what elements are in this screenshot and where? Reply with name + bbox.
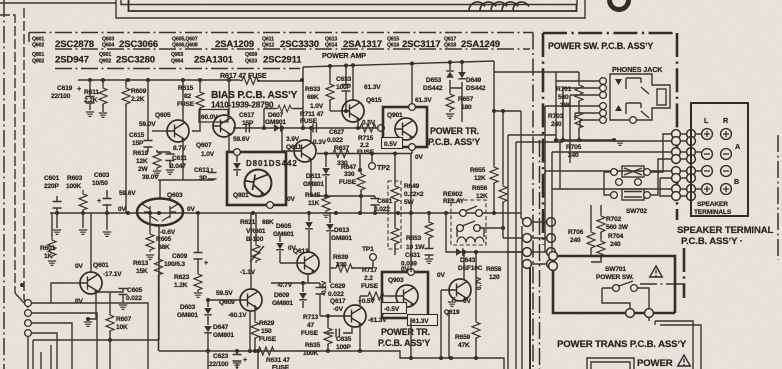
svg-text:SPEAKER: SPEAKER bbox=[697, 201, 728, 208]
svg-text:0V: 0V bbox=[118, 206, 127, 213]
svg-text:R711 47: R711 47 bbox=[300, 111, 324, 118]
svg-text:Q603: Q603 bbox=[167, 192, 183, 199]
svg-text:240: 240 bbox=[570, 237, 581, 244]
svg-text:100/6.3: 100/6.3 bbox=[164, 261, 185, 268]
border power sw box right bbox=[676, 33, 679, 220]
svg-text:15P: 15P bbox=[132, 140, 144, 147]
svg-text:C601: C601 bbox=[44, 175, 60, 182]
svg-text:D647: D647 bbox=[213, 324, 229, 331]
wire y111 to border col bbox=[520, 111, 522, 213]
svg-text:330: 330 bbox=[336, 262, 347, 269]
svg-text:-60.1V: -60.1V bbox=[228, 312, 247, 319]
svg-text:R623: R623 bbox=[174, 274, 190, 281]
svg-text:60.0V: 60.0V bbox=[201, 114, 218, 121]
svg-text:R705: R705 bbox=[566, 144, 582, 151]
transistor pair Q603 oval bbox=[137, 199, 183, 226]
wire upper frame outer bbox=[116, 0, 585, 18]
svg-text:2SC2911: 2SC2911 bbox=[263, 55, 302, 66]
wire supply rail 61.3V bbox=[303, 61, 494, 67]
svg-text:PHONES JACK: PHONES JACK bbox=[612, 65, 663, 74]
wire bus end rise bbox=[520, 213, 522, 218]
svg-text:D607: D607 bbox=[268, 112, 284, 119]
coil L?? loops bbox=[469, 2, 529, 11]
transistor Q619 bbox=[449, 279, 471, 301]
border horizontal power amp left bbox=[55, 68, 300, 70]
svg-text:240: 240 bbox=[551, 121, 562, 128]
resistor R631 47 FUSE on bus bbox=[256, 347, 276, 355]
svg-text:2.2K: 2.2K bbox=[84, 97, 98, 104]
transistor Q601 bbox=[80, 272, 102, 294]
border vertical between power amp and power sw bbox=[532, 33, 534, 369]
svg-text:D801DS442: D801DS442 bbox=[246, 159, 298, 168]
svg-text:1.0V: 1.0V bbox=[310, 103, 324, 110]
svg-text:R635: R635 bbox=[305, 342, 321, 349]
capacitor C623 electrolytic bbox=[236, 351, 238, 354]
svg-text:D613: D613 bbox=[334, 227, 350, 234]
svg-text:8.7V: 8.7V bbox=[173, 145, 187, 152]
capacitor C603 electrolytic bbox=[106, 190, 108, 213]
svg-text:Q605: Q605 bbox=[155, 112, 171, 119]
svg-text:R607: R607 bbox=[116, 316, 132, 323]
capacitor C633 bbox=[345, 66, 347, 112]
svg-text:1K: 1K bbox=[44, 253, 53, 260]
capacitor C629 bbox=[319, 283, 321, 316]
resistor R713 47 FUSE bbox=[327, 316, 329, 326]
svg-text:POWER TR.: POWER TR. bbox=[430, 126, 479, 136]
svg-text:POWER TRANS P.C.B. ASSʼY: POWER TRANS P.C.B. ASSʼY bbox=[557, 339, 687, 350]
svg-text:RE602: RE602 bbox=[443, 191, 463, 198]
svg-text:C619: C619 bbox=[57, 85, 73, 92]
svg-text:11K: 11K bbox=[308, 200, 320, 207]
svg-text:-17.1V: -17.1V bbox=[103, 271, 122, 278]
svg-text:FUSE: FUSE bbox=[177, 101, 195, 108]
border left vertical bbox=[3, 0, 5, 369]
svg-text:R601: R601 bbox=[40, 245, 56, 252]
svg-text:0V: 0V bbox=[187, 206, 196, 213]
svg-text:10/50: 10/50 bbox=[92, 180, 108, 187]
svg-text:R649: R649 bbox=[404, 183, 420, 190]
svg-text:C609: C609 bbox=[172, 253, 188, 260]
svg-text:D605: D605 bbox=[276, 223, 292, 230]
svg-text:C681: C681 bbox=[377, 198, 393, 205]
svg-text:SW701: SW701 bbox=[605, 266, 626, 273]
svg-text:R637: R637 bbox=[334, 145, 350, 152]
terminal screws row3 minus bbox=[702, 166, 713, 177]
resistor R615 82 FUSE bbox=[192, 80, 200, 131]
svg-text:+: + bbox=[204, 258, 208, 267]
svg-text:TERMINALS: TERMINALS bbox=[694, 209, 732, 216]
svg-text:DSF10C: DSF10C bbox=[458, 265, 483, 272]
capacitor C617 bbox=[246, 124, 249, 133]
svg-text:R617 47 FUSE: R617 47 FUSE bbox=[220, 71, 267, 80]
svg-text:330: 330 bbox=[344, 171, 355, 178]
capacitor C631 bbox=[428, 238, 430, 258]
svg-text:D603: D603 bbox=[180, 304, 196, 311]
resistor R619 12K 2W bbox=[157, 150, 170, 152]
svg-text:Q611: Q611 bbox=[286, 144, 302, 151]
svg-text:Q616: Q616 bbox=[387, 43, 399, 49]
node Q901 base circle bbox=[378, 125, 385, 132]
capacitor C615 bbox=[147, 80, 149, 152]
svg-text:A: A bbox=[735, 142, 740, 151]
connector ladder right column bbox=[547, 218, 556, 227]
wire Q619 base bbox=[441, 290, 449, 303]
svg-text:150: 150 bbox=[261, 328, 272, 335]
capacitor C605 bbox=[96, 288, 123, 292]
wire upper frame thick with coil baseline bbox=[129, 0, 577, 11]
svg-text:5W: 5W bbox=[404, 199, 415, 206]
svg-text:+: + bbox=[243, 355, 247, 364]
capacitor C619 bbox=[89, 80, 91, 110]
svg-text:2SC2878: 2SC2878 bbox=[55, 39, 95, 50]
wire speaker rows bbox=[545, 141, 672, 189]
svg-text:Q614: Q614 bbox=[325, 43, 337, 49]
svg-text:R615: R615 bbox=[178, 85, 194, 92]
junction dots bus bbox=[55, 211, 59, 215]
border power sw box left bbox=[542, 33, 545, 245]
svg-text:Q615: Q615 bbox=[366, 97, 382, 104]
svg-text:R621: R621 bbox=[240, 219, 256, 226]
svg-text:59.6V: 59.6V bbox=[119, 190, 136, 197]
svg-text:GM801: GM801 bbox=[177, 312, 198, 319]
relay contact 1 bbox=[460, 210, 467, 217]
svg-text:0.3V: 0.3V bbox=[313, 139, 327, 146]
border top-left corner stub bbox=[28, 33, 30, 43]
svg-text:180: 180 bbox=[461, 104, 472, 111]
phones jack outline bbox=[610, 74, 670, 120]
capacitor C635 bbox=[327, 326, 352, 333]
wire Q903 emitter to bus bbox=[410, 318, 412, 358]
resistor R704 240 bbox=[600, 232, 602, 239]
svg-text:R647: R647 bbox=[341, 164, 357, 171]
svg-text:2SC3117: 2SC3117 bbox=[402, 39, 440, 50]
speaker terminal box bbox=[691, 103, 748, 216]
connector ladder left column bbox=[523, 218, 532, 227]
wire crossing stubs bbox=[508, 135, 563, 142]
wire Q605 base stub bbox=[152, 130, 167, 132]
svg-text:POWER TR.: POWER TR. bbox=[381, 327, 430, 337]
svg-text:Q609: Q609 bbox=[245, 52, 257, 58]
diode in Q801 box bbox=[233, 163, 241, 170]
svg-text:2SC3330: 2SC3330 bbox=[280, 39, 319, 50]
svg-text:68K: 68K bbox=[262, 219, 274, 226]
svg-text:15K: 15K bbox=[136, 268, 148, 275]
svg-text:22/100: 22/100 bbox=[209, 361, 229, 368]
svg-text:R713: R713 bbox=[303, 314, 319, 321]
resistor R703 240 bbox=[578, 101, 580, 110]
label -0.5V boxed bbox=[382, 303, 407, 314]
svg-text:POWER SW.: POWER SW. bbox=[596, 274, 634, 281]
svg-text:240: 240 bbox=[568, 152, 579, 159]
terminal screws row2 minus bbox=[702, 149, 713, 160]
svg-text:47: 47 bbox=[307, 322, 315, 329]
wire Q609 base bbox=[208, 299, 240, 301]
svg-text:B: B bbox=[734, 177, 739, 186]
wire Q619 collector bbox=[463, 252, 465, 280]
wire Q601 base bbox=[64, 282, 80, 284]
svg-text:FUSE: FUSE bbox=[339, 179, 357, 186]
capacitor C611 bbox=[169, 152, 171, 168]
svg-text:12K: 12K bbox=[476, 193, 488, 200]
svg-text:P.C.B. ASSʼY: P.C.B. ASSʼY bbox=[378, 338, 430, 348]
svg-text:47K: 47K bbox=[458, 342, 470, 349]
resistor block R649 dashed box bbox=[388, 181, 401, 249]
wire bottom right drops bbox=[655, 321, 701, 369]
wire Q615 emitter to base line bbox=[357, 121, 359, 128]
wire Q611 base bbox=[282, 128, 294, 151]
svg-text:POWER AMP: POWER AMP bbox=[322, 51, 366, 60]
svg-text:Q801: Q801 bbox=[32, 52, 44, 58]
svg-text:0.047: 0.047 bbox=[170, 163, 186, 170]
switch SW702 row1 bbox=[611, 169, 618, 176]
svg-text:Q606,Q608: Q606,Q608 bbox=[172, 43, 198, 49]
svg-text:SW702: SW702 bbox=[626, 208, 647, 215]
svg-text:R609: R609 bbox=[131, 88, 147, 95]
wire Q617 base bbox=[320, 315, 344, 317]
terminal screws row4 plus bbox=[702, 184, 713, 195]
wire Q605 collector bbox=[182, 80, 184, 121]
node Q801 circles bbox=[234, 149, 241, 156]
resistor R711 47 FUSE bbox=[264, 109, 303, 129]
svg-text:GM801: GM801 bbox=[272, 300, 293, 307]
switch SW702 row2 bbox=[611, 192, 618, 199]
wire R659 column bbox=[475, 252, 477, 320]
wire Q615 collector bbox=[352, 65, 354, 100]
svg-text:560 3W: 560 3W bbox=[606, 224, 629, 231]
wire rail riser bbox=[302, 67, 304, 128]
svg-text:12K: 12K bbox=[474, 175, 486, 182]
svg-text:C629: C629 bbox=[330, 283, 346, 290]
box Q903 power tr bbox=[382, 272, 428, 318]
svg-text:120: 120 bbox=[489, 274, 500, 281]
svg-text:10K: 10K bbox=[116, 324, 128, 331]
ground C619 bbox=[86, 112, 94, 116]
label 0.5V boxed bbox=[382, 138, 403, 149]
resistor R706 240 bbox=[590, 205, 592, 230]
jack contacts bbox=[626, 78, 649, 118]
jack pin circles bbox=[600, 78, 607, 85]
svg-text:Q802: Q802 bbox=[32, 59, 44, 65]
transistor Q903 bbox=[396, 285, 418, 307]
svg-text:R659: R659 bbox=[455, 334, 471, 341]
resistor R715 2.2 FUSE bbox=[358, 124, 378, 132]
diode D611 bbox=[325, 154, 327, 168]
svg-text:61.3V: 61.3V bbox=[415, 97, 432, 104]
svg-text:R702: R702 bbox=[606, 216, 622, 223]
svg-text:59.6V: 59.6V bbox=[233, 136, 250, 143]
svg-text:P.C.B. ASSʼY ·: P.C.B. ASSʼY · bbox=[681, 236, 743, 247]
svg-text:560: 560 bbox=[558, 94, 569, 101]
svg-text:Q607: Q607 bbox=[196, 142, 212, 149]
svg-text:2.2: 2.2 bbox=[364, 275, 373, 282]
transformer box bottom bbox=[587, 358, 634, 369]
svg-text:C617: C617 bbox=[239, 112, 255, 119]
svg-text:Q617: Q617 bbox=[330, 298, 346, 305]
box Q901 power tr bbox=[383, 107, 427, 147]
wire Q611 emitter bbox=[310, 161, 312, 196]
wire long mid verticals bbox=[508, 135, 522, 369]
svg-text:100P: 100P bbox=[336, 84, 352, 91]
resistor R607 bbox=[109, 292, 111, 313]
wire oval bottom bbox=[158, 226, 160, 340]
svg-text:BIAS P.C.B. ASSʼY: BIAS P.C.B. ASSʼY bbox=[211, 89, 298, 101]
svg-text:2SC3280: 2SC3280 bbox=[116, 55, 155, 66]
svg-text:FUSE: FUSE bbox=[272, 365, 290, 369]
svg-text:FUSE: FUSE bbox=[259, 336, 277, 343]
junction dots rail y80 bbox=[88, 78, 92, 82]
svg-text:0V: 0V bbox=[287, 196, 296, 203]
svg-text:Q619: Q619 bbox=[444, 309, 460, 316]
svg-text:12K: 12K bbox=[136, 158, 148, 165]
svg-text:C627: C627 bbox=[329, 129, 345, 136]
svg-text:Q610: Q610 bbox=[245, 59, 257, 65]
svg-text:R715: R715 bbox=[358, 135, 374, 142]
wire Q609 emitter bbox=[249, 311, 251, 351]
terminal ladder circles bbox=[672, 130, 681, 139]
svg-text:-0.5V: -0.5V bbox=[384, 306, 400, 313]
svg-text:0.022: 0.022 bbox=[327, 137, 343, 144]
wire Q609 collector bbox=[250, 213, 252, 289]
wire Q613 emitter bbox=[307, 273, 309, 283]
border power sw box top bbox=[543, 32, 677, 35]
svg-text:FUSE: FUSE bbox=[361, 283, 379, 290]
svg-text:R658: R658 bbox=[486, 266, 502, 273]
svg-text:-1.1V: -1.1V bbox=[240, 269, 256, 276]
diode D613 bbox=[326, 224, 334, 231]
switch SW701 bbox=[602, 281, 649, 309]
border vertical second (speaker terminal section) bbox=[539, 140, 541, 369]
wire 1.0V line y128 bbox=[233, 127, 378, 129]
wire Q613 base bbox=[280, 262, 297, 264]
svg-text:B-100: B-100 bbox=[246, 236, 264, 243]
svg-text:Q618: Q618 bbox=[444, 43, 456, 49]
node Q903 circles bbox=[408, 269, 415, 276]
transistor Q801 bbox=[242, 167, 273, 198]
svg-text:2SA1209: 2SA1209 bbox=[215, 39, 254, 50]
svg-text:2.2: 2.2 bbox=[360, 142, 369, 149]
svg-text:240: 240 bbox=[610, 241, 621, 248]
border speaker pcb divider horizontal bbox=[640, 283, 684, 285]
svg-text:FUSE: FUSE bbox=[300, 118, 318, 125]
svg-text:0V: 0V bbox=[437, 272, 446, 279]
capacitor C601 bbox=[56, 196, 58, 213]
svg-text:FUSE: FUSE bbox=[301, 330, 319, 337]
svg-text:3W: 3W bbox=[560, 102, 571, 109]
wire upper frame inner bbox=[121, 0, 577, 5]
junction dots row bbox=[324, 152, 328, 156]
svg-text:2SA1249: 2SA1249 bbox=[461, 39, 500, 50]
svg-text:Q903: Q903 bbox=[171, 52, 183, 58]
svg-text:3P: 3P bbox=[199, 175, 208, 182]
wire connector fanout bbox=[28, 303, 148, 369]
resistor R617 zig bbox=[240, 77, 260, 85]
svg-text:0V: 0V bbox=[75, 298, 84, 305]
label 60.0V boxed bbox=[199, 110, 228, 123]
wire Q615 base bbox=[330, 110, 342, 112]
svg-text:2.2K: 2.2K bbox=[131, 96, 145, 103]
sw702 aux circles bbox=[616, 179, 623, 186]
svg-text:R603: R603 bbox=[67, 175, 83, 182]
svg-text:C605: C605 bbox=[127, 287, 143, 294]
junction dots rail y61 bbox=[328, 64, 332, 68]
svg-text:0V: 0V bbox=[75, 263, 84, 270]
svg-text:C603: C603 bbox=[94, 172, 110, 179]
transistor Q605 bbox=[167, 120, 189, 142]
svg-text:0V: 0V bbox=[463, 298, 472, 305]
resistor R633 bbox=[329, 66, 331, 111]
svg-text:R656: R656 bbox=[472, 185, 488, 192]
wire gnd row y140 bbox=[556, 139, 614, 141]
svg-text:D609: D609 bbox=[274, 292, 290, 299]
svg-text:R629: R629 bbox=[259, 320, 275, 327]
svg-text:82: 82 bbox=[184, 93, 192, 100]
svg-text:1.0V: 1.0V bbox=[201, 151, 215, 158]
wire Q607 collector bbox=[228, 80, 230, 115]
svg-text:C631: C631 bbox=[405, 252, 421, 259]
diode D607 bbox=[274, 124, 281, 132]
wire Q617 collector bbox=[359, 296, 361, 305]
svg-text:Q612: Q612 bbox=[262, 43, 274, 49]
capacitor C613 bbox=[211, 168, 213, 180]
diode D603 bbox=[207, 300, 209, 307]
wire connector to Q601 base bbox=[51, 283, 64, 303]
resistor R657 180 bbox=[449, 90, 451, 92]
svg-text:D653: D653 bbox=[426, 77, 442, 84]
resistor R637 330 bbox=[331, 150, 351, 158]
svg-text:C613: C613 bbox=[194, 167, 210, 174]
border speaker pcb divider bbox=[683, 248, 686, 298]
wire Q901 collector from rail bbox=[411, 64, 413, 108]
junction dots line y128 bbox=[262, 126, 266, 130]
wire Q617 emitter bbox=[359, 326, 361, 351]
svg-text:R619: R619 bbox=[133, 150, 149, 157]
svg-text:TP1: TP1 bbox=[362, 246, 374, 253]
svg-text:-0.6V: -0.6V bbox=[160, 229, 176, 236]
label -61.3V boxed bbox=[408, 315, 438, 326]
wire ladder joins bbox=[680, 134, 701, 196]
svg-text:R701: R701 bbox=[556, 86, 572, 93]
svg-text:59.5V: 59.5V bbox=[216, 290, 233, 297]
wire sw702 to ladder bbox=[604, 134, 672, 196]
transistor Q611 bbox=[294, 140, 316, 162]
wire Q611 collector bbox=[310, 128, 312, 141]
transistor Q613 bbox=[297, 252, 319, 274]
wire -0.7V row bbox=[271, 282, 320, 284]
svg-text:R703: R703 bbox=[548, 113, 564, 120]
svg-text:1.2K: 1.2K bbox=[174, 282, 188, 289]
svg-text:Q601: Q601 bbox=[93, 262, 109, 269]
wire left bottom nest bbox=[33, 340, 159, 351]
svg-text:2SC3066: 2SC3066 bbox=[119, 39, 158, 50]
diode D643 bbox=[456, 248, 463, 256]
resistor R656 bbox=[499, 184, 507, 204]
resistor R609 bbox=[125, 80, 127, 213]
svg-text:R706: R706 bbox=[568, 229, 584, 236]
svg-text:GM801: GM801 bbox=[273, 231, 294, 238]
svg-text:Q613: Q613 bbox=[293, 248, 309, 255]
resistor R623 bbox=[194, 272, 202, 292]
resistor R701 560 3W bbox=[578, 72, 580, 83]
diode D609 bbox=[299, 293, 307, 300]
wire Q901 emitter to 0V line bbox=[411, 150, 413, 154]
svg-text:POWER: POWER bbox=[637, 358, 673, 369]
wire Q601 emitter bbox=[88, 292, 96, 319]
transistor Q901 bbox=[395, 118, 417, 140]
wire ladder links bbox=[503, 218, 546, 264]
svg-text:68K: 68K bbox=[158, 244, 170, 251]
svg-text:C633: C633 bbox=[336, 76, 352, 83]
svg-text:C635: C635 bbox=[336, 336, 352, 343]
